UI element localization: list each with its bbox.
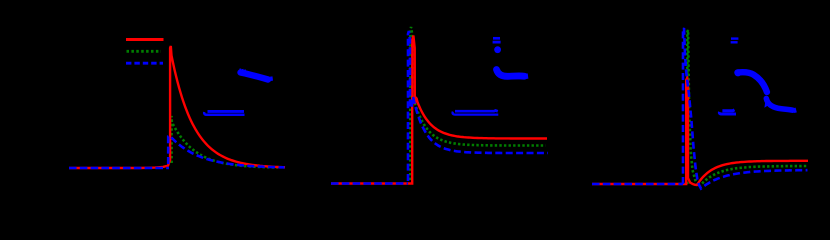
panel 3 annotation: blue pen S-swoosh lower stroke [764, 97, 795, 113]
legend red solid line sample [126, 38, 164, 41]
panel 1 annotation: slanted blue pen scribble [240, 69, 271, 81]
panel 1: red solid curve (baseline + spike + decay) [69, 46, 285, 168]
panel 2: green dotted curve (spike + relaxation to plateau) [410, 27, 545, 180]
legend blue dashed line sample [126, 62, 163, 65]
panel 1: blue dashed baseline over red [69, 167, 169, 170]
panel 2 annotation: blue dot [494, 46, 501, 53]
panel 3: red solid curve (baseline + spike + dip + recovery) [592, 78, 808, 185]
legend green dotted line sample [127, 50, 162, 53]
panel 2 annotation: blue pen swoosh [497, 70, 528, 79]
panel 3 annotation: blue double underline with left hook [719, 110, 736, 114]
panel 3 annotation: blue pen S-swoosh upper stroke [734, 69, 767, 92]
panel 3 annotation: blue equals sign [731, 39, 739, 43]
panel 3: blue dashed baseline over red [592, 183, 683, 186]
panel 2: red solid curve (baseline + spike + relaxation to plateau) [331, 36, 547, 184]
panel 3: blue dashed curve (spike + dip + recovery) [683, 28, 808, 189]
panel 1: green dotted curve (spike + decay) [172, 116, 278, 168]
panel 2 annotation: blue double underline with left hook [453, 111, 499, 115]
panel 2 annotation: blue equals sign [493, 38, 501, 42]
panel 3: green dotted curve (spike + dip + recovery) [687, 30, 808, 187]
panel 2: blue dashed baseline over red [331, 182, 408, 185]
panel 2: blue dashed curve (spike + relaxation to plateau) [408, 31, 548, 181]
panel 1: blue dashed curve (spike + decay) [168, 136, 284, 167]
panel 1 annotation: blue double underline with left hook [204, 111, 244, 114]
